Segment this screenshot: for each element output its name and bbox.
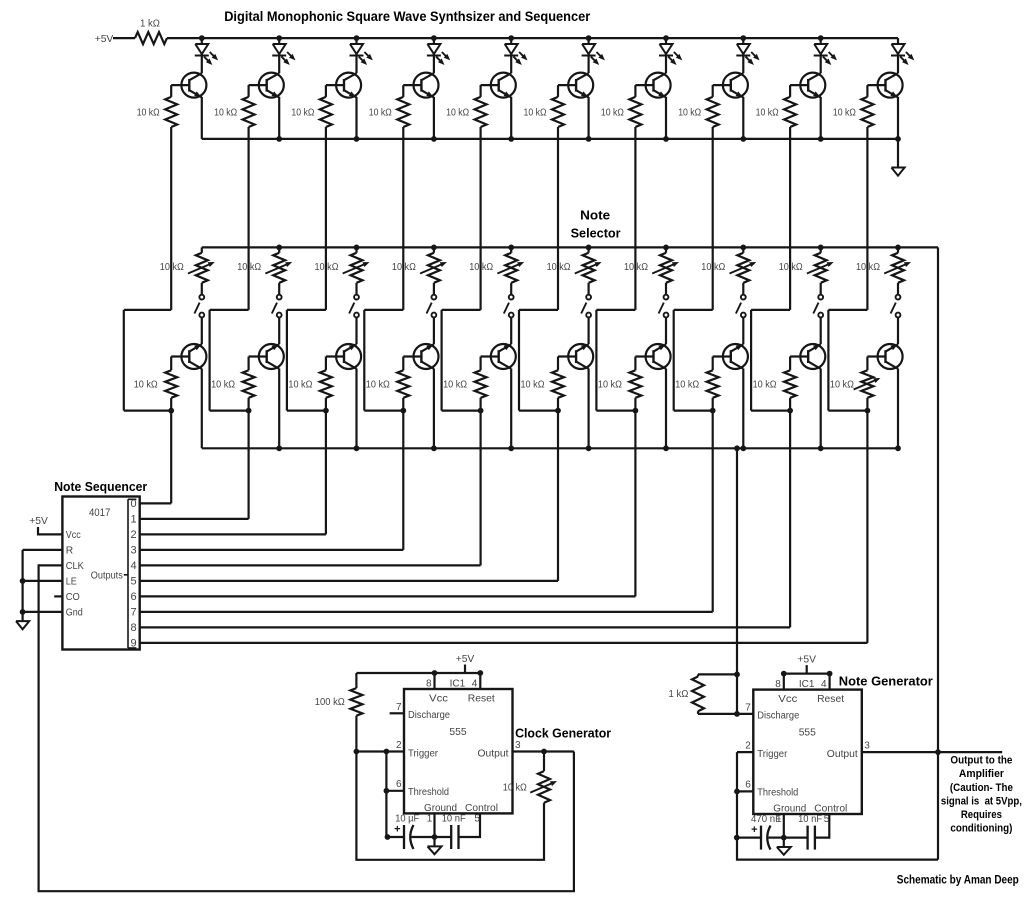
svg-text:Output: Output	[827, 749, 858, 760]
svg-text:10 kΩ: 10 kΩ	[446, 107, 469, 118]
svg-text:10 kΩ: 10 kΩ	[291, 107, 314, 118]
svg-text:3: 3	[131, 545, 137, 557]
svg-text:Ground: Ground	[424, 803, 457, 814]
svg-text:Requires: Requires	[961, 809, 1002, 821]
svg-text:Reset: Reset	[468, 693, 495, 704]
svg-text:Discharge: Discharge	[408, 710, 450, 721]
svg-text:Selector: Selector	[571, 225, 621, 240]
svg-text:0: 0	[131, 498, 137, 510]
svg-text:10 kΩ: 10 kΩ	[392, 262, 416, 273]
svg-text:4: 4	[472, 679, 478, 690]
svg-text:10 kΩ: 10 kΩ	[701, 262, 725, 273]
svg-text:7: 7	[396, 702, 402, 713]
svg-text:10 kΩ: 10 kΩ	[601, 107, 624, 118]
svg-text:10 kΩ: 10 kΩ	[214, 107, 237, 118]
svg-text:Threshold: Threshold	[757, 787, 798, 798]
svg-text:7: 7	[131, 607, 137, 619]
svg-text:10 kΩ: 10 kΩ	[503, 782, 527, 793]
svg-text:+: +	[394, 823, 400, 835]
svg-text:Ground: Ground	[773, 804, 806, 815]
svg-text:5: 5	[474, 814, 480, 825]
svg-text:9: 9	[131, 638, 137, 650]
svg-text:Vcc: Vcc	[778, 694, 797, 705]
svg-text:8: 8	[775, 679, 781, 690]
svg-text:10 kΩ: 10 kΩ	[134, 379, 158, 390]
svg-text:Vcc: Vcc	[66, 530, 81, 541]
svg-text:10 kΩ: 10 kΩ	[211, 379, 235, 390]
svg-text:Control: Control	[814, 804, 847, 815]
svg-text:3: 3	[864, 741, 870, 752]
svg-text:Output: Output	[478, 749, 509, 760]
svg-text:6: 6	[745, 780, 751, 791]
svg-text:10 kΩ: 10 kΩ	[237, 262, 261, 273]
svg-text:Outputs: Outputs	[91, 570, 123, 581]
svg-text:10 kΩ: 10 kΩ	[547, 262, 571, 273]
svg-text:4017: 4017	[89, 507, 111, 519]
svg-text:10 kΩ: 10 kΩ	[779, 262, 803, 273]
svg-text:Digital Monophonic Square Wave: Digital Monophonic Square Wave Synthsize…	[224, 8, 591, 24]
svg-text:Control: Control	[465, 803, 498, 814]
svg-text:3: 3	[515, 740, 521, 751]
svg-text:Discharge: Discharge	[757, 711, 799, 722]
svg-text:Vcc: Vcc	[429, 693, 448, 704]
svg-text:6: 6	[396, 779, 402, 790]
svg-text:10 kΩ: 10 kΩ	[856, 262, 880, 273]
svg-text:10 kΩ: 10 kΩ	[369, 107, 392, 118]
svg-text:10 kΩ: 10 kΩ	[160, 262, 184, 273]
svg-text:2: 2	[131, 529, 137, 541]
svg-text:10 kΩ: 10 kΩ	[288, 379, 312, 390]
svg-text:+5V: +5V	[95, 34, 114, 45]
svg-text:6: 6	[131, 591, 137, 603]
svg-text:1: 1	[427, 814, 433, 825]
svg-text:10 kΩ: 10 kΩ	[443, 379, 467, 390]
svg-text:7: 7	[745, 702, 751, 713]
svg-text:10 µF: 10 µF	[395, 814, 419, 825]
svg-text:Threshold: Threshold	[408, 787, 449, 798]
svg-text:Clock Generator: Clock Generator	[515, 726, 611, 741]
svg-text:Schematic by Aman Deep: Schematic by Aman Deep	[897, 872, 1019, 886]
svg-text:8: 8	[131, 622, 137, 634]
svg-text:10 kΩ: 10 kΩ	[624, 262, 648, 273]
svg-text:470 nF: 470 nF	[751, 814, 781, 825]
svg-text:10 kΩ: 10 kΩ	[753, 379, 777, 390]
svg-text:conditioning): conditioning)	[950, 823, 1012, 835]
svg-text:4: 4	[821, 679, 827, 690]
svg-text:(Caution- The: (Caution- The	[950, 782, 1013, 794]
svg-text:10 kΩ: 10 kΩ	[830, 379, 854, 390]
svg-text:Trigger: Trigger	[408, 749, 439, 760]
svg-text:+5V: +5V	[456, 654, 475, 665]
svg-text:10 nF: 10 nF	[442, 814, 466, 825]
svg-text:signal is at 5Vpp,: signal is at 5Vpp,	[941, 795, 1022, 807]
svg-text:R: R	[66, 546, 73, 557]
svg-text:10 kΩ: 10 kΩ	[524, 107, 547, 118]
svg-text:Gnd: Gnd	[66, 608, 83, 619]
svg-text:555: 555	[799, 727, 816, 738]
svg-text:2: 2	[745, 741, 751, 752]
svg-text:IC1: IC1	[799, 679, 815, 690]
svg-text:4: 4	[131, 560, 137, 572]
svg-text:CLK: CLK	[66, 561, 84, 572]
svg-text:Reset: Reset	[817, 694, 844, 705]
svg-text:+: +	[751, 824, 757, 836]
svg-text:10 kΩ: 10 kΩ	[315, 262, 339, 273]
svg-text:1 kΩ: 1 kΩ	[669, 689, 689, 700]
svg-text:10 kΩ: 10 kΩ	[469, 262, 493, 273]
svg-text:10 kΩ: 10 kΩ	[678, 107, 701, 118]
svg-text:8: 8	[426, 679, 432, 690]
svg-text:10 kΩ: 10 kΩ	[598, 379, 622, 390]
svg-text:10 kΩ: 10 kΩ	[675, 379, 699, 390]
svg-text:10 kΩ: 10 kΩ	[521, 379, 545, 390]
svg-text:LE: LE	[66, 577, 77, 588]
svg-text:IC1: IC1	[450, 679, 466, 690]
svg-text:10 kΩ: 10 kΩ	[833, 107, 856, 118]
svg-text:Trigger: Trigger	[757, 749, 788, 760]
svg-text:Amplifier: Amplifier	[959, 768, 1005, 780]
svg-text:555: 555	[449, 727, 466, 738]
svg-text:10 kΩ: 10 kΩ	[366, 379, 390, 390]
svg-text:Note Sequencer: Note Sequencer	[54, 480, 147, 494]
svg-text:+5V: +5V	[29, 516, 48, 527]
svg-text:Output to the: Output to the	[950, 755, 1012, 767]
svg-text:Note: Note	[580, 207, 610, 222]
svg-text:Note Generator: Note Generator	[839, 674, 933, 689]
svg-text:100 kΩ: 100 kΩ	[315, 697, 345, 708]
svg-text:1: 1	[131, 514, 137, 526]
svg-text:5: 5	[824, 814, 830, 825]
svg-text:+5V: +5V	[797, 655, 816, 666]
svg-text:10 kΩ: 10 kΩ	[756, 107, 779, 118]
svg-text:1 kΩ: 1 kΩ	[140, 19, 160, 30]
svg-text:CO: CO	[66, 592, 80, 603]
svg-text:10 kΩ: 10 kΩ	[137, 107, 160, 118]
svg-text:5: 5	[131, 576, 137, 588]
svg-text:10 nF: 10 nF	[798, 814, 822, 825]
svg-text:2: 2	[396, 740, 402, 751]
